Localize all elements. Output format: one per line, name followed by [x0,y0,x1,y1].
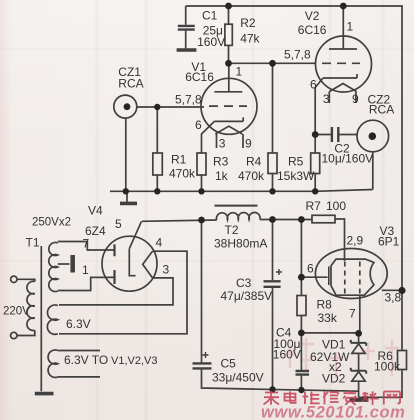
svg-text:R5: R5 [288,155,304,169]
svg-text:2,9: 2,9 [347,234,364,248]
svg-text:470k: 470k [238,169,265,183]
svg-text:RCA: RCA [369,103,394,117]
svg-text:1: 1 [347,20,354,34]
svg-text:100: 100 [326,199,346,213]
svg-text:6C16: 6C16 [298,23,327,37]
svg-text:7: 7 [349,307,356,321]
svg-text:V1,V2,V3: V1,V2,V3 [111,355,157,367]
svg-text:V2: V2 [305,9,320,23]
svg-text:6: 6 [310,78,317,92]
svg-text:C1: C1 [202,9,218,23]
svg-text:3,8: 3,8 [385,291,402,305]
svg-text:5: 5 [115,217,122,231]
svg-text:1k: 1k [215,169,229,183]
svg-text:220V: 220V [3,306,30,318]
svg-text:15k3W: 15k3W [277,169,315,183]
svg-text:6: 6 [307,262,314,276]
svg-text:1: 1 [236,65,243,79]
svg-text:3: 3 [163,263,170,277]
svg-text:3: 3 [323,92,330,106]
svg-text:R4: R4 [246,155,262,169]
svg-text:33k: 33k [318,311,338,325]
svg-text:160V: 160V [197,35,225,49]
svg-text:R8: R8 [317,298,333,312]
svg-text:R1: R1 [171,153,187,167]
svg-text:R7: R7 [306,199,322,213]
svg-text:9: 9 [245,137,252,151]
svg-text:C5: C5 [221,357,237,371]
svg-text:5,7,8: 5,7,8 [284,48,311,62]
svg-text:4: 4 [156,236,163,250]
svg-text:100k: 100k [374,360,401,374]
svg-text:470k: 470k [169,167,196,181]
svg-text:3: 3 [219,137,226,151]
svg-text:V4: V4 [88,204,103,218]
svg-text:T2: T2 [225,223,239,237]
svg-text:www.520101.com: www.520101.com [261,404,405,420]
svg-text:6: 6 [195,118,202,132]
svg-text:T1: T1 [26,236,40,250]
svg-text:C3: C3 [236,276,252,290]
svg-text:6.3V TO: 6.3V TO [64,353,108,367]
svg-text:R2: R2 [240,16,256,30]
svg-text:5,7,8: 5,7,8 [175,93,202,107]
svg-text:VD2: VD2 [322,372,346,386]
svg-text:10μ/160V: 10μ/160V [322,152,374,166]
svg-text:9: 9 [352,92,359,106]
svg-text:6C16: 6C16 [185,70,214,84]
svg-text:1: 1 [82,263,89,277]
svg-text:6P1: 6P1 [378,235,400,249]
svg-text:6.3V: 6.3V [66,317,91,331]
svg-text:33μ/450V: 33μ/450V [212,371,264,385]
svg-text:RCA: RCA [118,77,143,91]
svg-text:47μ/385V: 47μ/385V [221,289,273,303]
svg-text:R3: R3 [213,155,229,169]
svg-text:250Vx2: 250Vx2 [32,217,71,229]
svg-text:7: 7 [83,237,90,251]
svg-text:47k: 47k [240,32,260,46]
svg-text:38H80mA: 38H80mA [214,237,267,251]
